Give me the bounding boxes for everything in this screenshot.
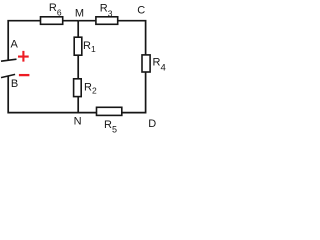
svg-text:A: A [11,39,19,51]
resistor R6 [41,17,63,25]
terminal B bar [1,74,15,77]
wire: R5 left to bottom-left corner and up to terminal B [8,76,96,113]
svg-text:R6: R6 [49,2,62,18]
wire: from terminal A up left side and across top to node M [8,21,78,61]
svg-text:B: B [11,78,18,90]
resistor R2 [74,79,82,97]
svg-text:R1: R1 [83,40,96,54]
svg-text:M: M [75,8,84,20]
resistor R5 [97,107,122,115]
svg-text:C: C [137,5,145,17]
resistor R3 [96,17,118,25]
wire: node M to top-right corner and down to R4 [78,21,145,55]
svg-text:R2: R2 [84,81,97,95]
wire: middle branch M to N through R1 and R2 [77,21,79,113]
resistor R1 [74,37,82,55]
wire: R4 bottom to bottom-right corner to R5 [122,72,146,113]
svg-text:R5: R5 [104,119,117,134]
polarity - (red) [19,74,30,76]
svg-text:D: D [148,118,156,130]
svg-text:R4: R4 [153,56,166,73]
svg-text:N: N [74,116,82,128]
polarity + (red) [18,51,29,62]
resistor R4 [142,55,150,72]
svg-text:R3: R3 [100,3,113,19]
terminal A bar [1,59,17,61]
